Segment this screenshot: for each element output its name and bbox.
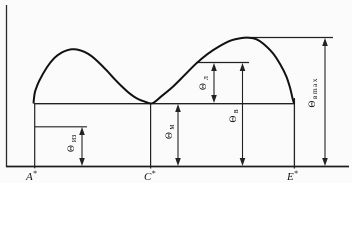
dimension arrow theta_iz xyxy=(79,127,85,166)
dimension arrow theta_v xyxy=(240,63,246,166)
svg-text:Θвmax: Θвmax xyxy=(308,77,319,107)
temperature curve xyxy=(34,38,295,104)
dimension arrow theta_m xyxy=(175,104,181,166)
reference line for theta_l / theta_v xyxy=(196,62,249,64)
vertical line at A* xyxy=(34,104,36,169)
top reference line at curve maximum xyxy=(244,37,333,39)
dimension arrow theta_vmax xyxy=(322,38,328,166)
reference line for theta_iz xyxy=(35,126,87,128)
dimension arrow theta_l xyxy=(211,63,217,103)
vertical line at E* xyxy=(293,98,295,169)
vertical line at C* xyxy=(150,104,152,169)
y-axis xyxy=(6,5,8,167)
svg-text:Θв: Θв xyxy=(229,109,240,122)
x-axis baseline xyxy=(6,166,349,168)
level line (mean temperature) xyxy=(34,103,295,105)
